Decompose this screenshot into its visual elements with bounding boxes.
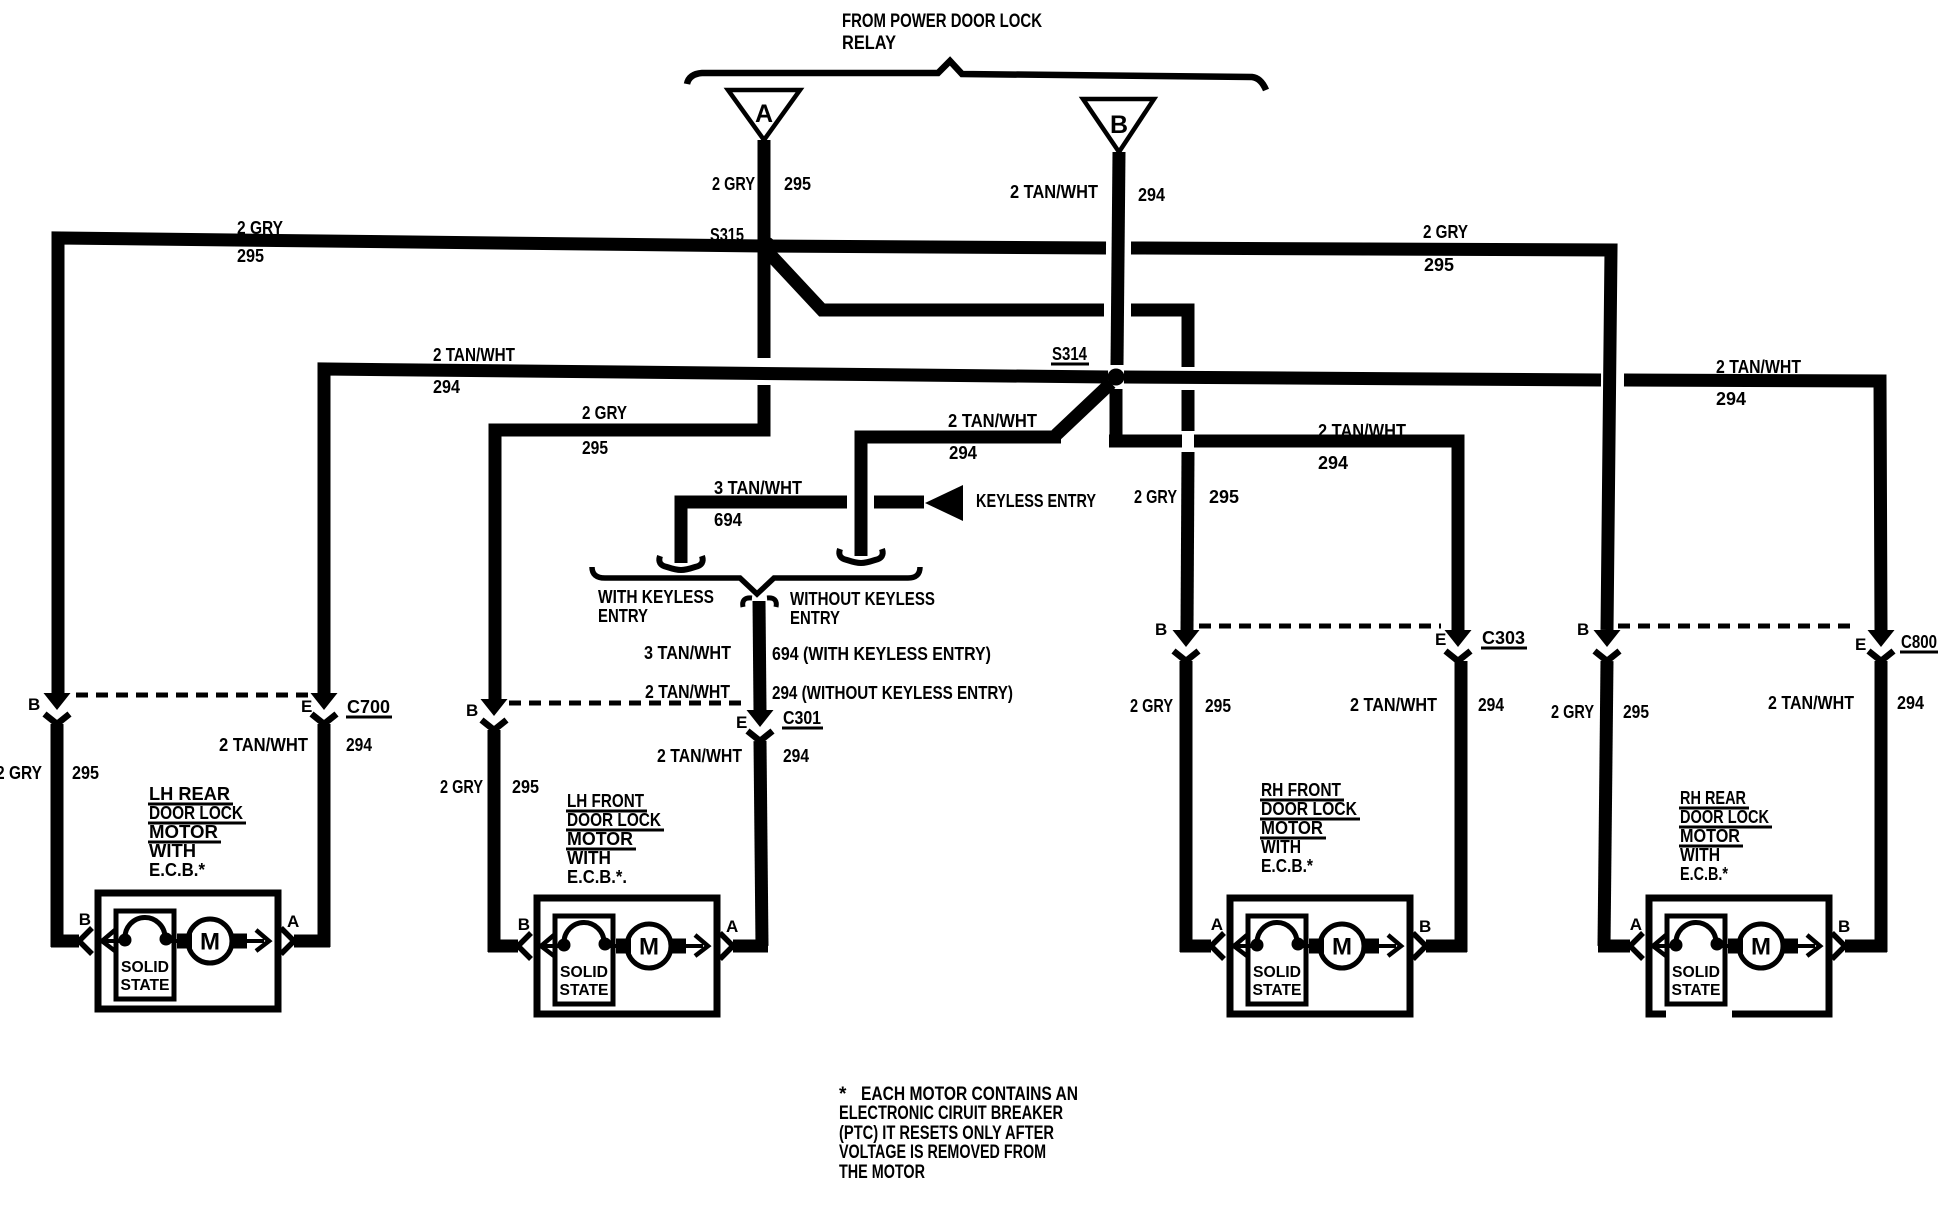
- svg-text:(PTC) IT RESETS ONLY AFTER: (PTC) IT RESETS ONLY AFTER: [839, 1123, 1054, 1144]
- svg-text:3 TAN/WHT: 3 TAN/WHT: [644, 643, 731, 663]
- svg-text:WITHOUT KEYLESS: WITHOUT KEYLESS: [790, 589, 935, 609]
- svg-text:E.C.B.*: E.C.B.*: [1680, 864, 1728, 884]
- svg-text:RH FRONT: RH FRONT: [1261, 780, 1341, 800]
- svg-text:E.C.B.*: E.C.B.*: [1261, 856, 1313, 876]
- svg-text:WITH KEYLESS: WITH KEYLESS: [598, 587, 714, 607]
- svg-text:294: 294: [1318, 453, 1348, 473]
- svg-text:A: A: [1630, 915, 1642, 934]
- svg-text:B: B: [1155, 620, 1167, 639]
- svg-text:E: E: [736, 713, 747, 732]
- svg-text:295: 295: [512, 777, 539, 797]
- svg-text:THE MOTOR: THE MOTOR: [839, 1162, 925, 1183]
- svg-text:694 (WITH KEYLESS ENTRY): 694 (WITH KEYLESS ENTRY): [772, 644, 991, 664]
- svg-text:*: *: [839, 1084, 847, 1105]
- svg-text:S314: S314: [1052, 344, 1087, 364]
- svg-text:MOTOR: MOTOR: [1680, 826, 1740, 846]
- svg-text:2 GRY: 2 GRY: [712, 174, 755, 194]
- svg-text:294: 294: [433, 377, 460, 397]
- svg-text:295: 295: [1209, 487, 1239, 507]
- svg-text:294: 294: [346, 735, 372, 755]
- svg-text:DOOR LOCK: DOOR LOCK: [149, 803, 243, 823]
- svg-text:2 GRY: 2 GRY: [440, 777, 483, 797]
- svg-text:295: 295: [1205, 696, 1231, 716]
- svg-text:2 TAN/WHT: 2 TAN/WHT: [645, 682, 730, 702]
- svg-text:295: 295: [1623, 702, 1649, 722]
- svg-text:C301: C301: [783, 708, 821, 728]
- svg-text:2 TAN/WHT: 2 TAN/WHT: [1318, 421, 1406, 441]
- svg-text:A: A: [287, 912, 299, 931]
- svg-text:294: 294: [1897, 693, 1924, 713]
- svg-text:2 TAN/WHT: 2 TAN/WHT: [1350, 695, 1437, 715]
- svg-text:C303: C303: [1482, 628, 1525, 648]
- svg-text:ENTRY: ENTRY: [790, 608, 840, 628]
- svg-text:2 TAN/WHT: 2 TAN/WHT: [657, 746, 742, 766]
- svg-text:FROM POWER DOOR LOCK: FROM POWER DOOR LOCK: [842, 11, 1042, 32]
- svg-text:B: B: [1110, 111, 1128, 139]
- svg-text:294: 294: [1478, 695, 1504, 715]
- svg-text:294 (WITHOUT KEYLESS ENTRY): 294 (WITHOUT KEYLESS ENTRY): [772, 683, 1013, 703]
- svg-text:ELECTRONIC CIRUIT BREAKER: ELECTRONIC CIRUIT BREAKER: [839, 1103, 1063, 1124]
- svg-text:C800: C800: [1901, 632, 1937, 652]
- svg-text:KEYLESS ENTRY: KEYLESS ENTRY: [976, 491, 1096, 511]
- svg-text:E.C.B.*: E.C.B.*: [149, 860, 205, 880]
- svg-text:2 TAN/WHT: 2 TAN/WHT: [433, 345, 515, 365]
- svg-text:RH REAR: RH REAR: [1680, 788, 1746, 808]
- svg-text:2 GRY: 2 GRY: [0, 763, 42, 783]
- svg-text:WITH: WITH: [567, 848, 611, 868]
- svg-text:DOOR LOCK: DOOR LOCK: [567, 810, 661, 830]
- svg-text:2 GRY: 2 GRY: [1551, 702, 1594, 722]
- svg-text:E: E: [1855, 635, 1866, 654]
- svg-text:295: 295: [72, 763, 99, 783]
- svg-text:DOOR LOCK: DOOR LOCK: [1261, 799, 1357, 819]
- svg-text:B: B: [1419, 917, 1431, 936]
- svg-text:S315: S315: [710, 225, 744, 245]
- svg-text:LH FRONT: LH FRONT: [567, 791, 644, 811]
- svg-text:2 TAN/WHT: 2 TAN/WHT: [1716, 357, 1801, 377]
- svg-text:B: B: [466, 701, 478, 720]
- svg-text:E: E: [301, 697, 312, 716]
- svg-text:294: 294: [1716, 389, 1746, 409]
- svg-text:VOLTAGE IS REMOVED FROM: VOLTAGE IS REMOVED FROM: [839, 1142, 1046, 1163]
- svg-text:B: B: [1577, 620, 1589, 639]
- svg-text:C700: C700: [347, 697, 390, 717]
- svg-text:MOTOR: MOTOR: [1261, 818, 1323, 838]
- svg-text:2 TAN/WHT: 2 TAN/WHT: [1768, 693, 1854, 713]
- svg-text:295: 295: [237, 246, 264, 266]
- svg-text:WITH: WITH: [1680, 845, 1720, 865]
- svg-text:294: 294: [949, 443, 977, 463]
- svg-text:ENTRY: ENTRY: [598, 606, 648, 626]
- svg-text:295: 295: [582, 438, 608, 458]
- svg-text:A: A: [755, 100, 773, 128]
- svg-text:2 TAN/WHT: 2 TAN/WHT: [948, 411, 1037, 431]
- svg-text:B: B: [28, 695, 40, 714]
- svg-text:WITH: WITH: [149, 841, 196, 861]
- svg-text:EACH MOTOR CONTAINS AN: EACH MOTOR CONTAINS AN: [861, 1084, 1078, 1105]
- svg-text:3 TAN/WHT: 3 TAN/WHT: [714, 478, 802, 498]
- svg-text:E: E: [1435, 630, 1446, 649]
- svg-text:LH REAR: LH REAR: [149, 784, 230, 804]
- svg-text:B: B: [79, 910, 91, 929]
- svg-text:2 GRY: 2 GRY: [237, 218, 283, 238]
- svg-text:MOTOR: MOTOR: [567, 829, 633, 849]
- svg-text:2 GRY: 2 GRY: [582, 403, 627, 423]
- svg-text:RELAY: RELAY: [842, 33, 896, 54]
- svg-text:694: 694: [714, 510, 742, 530]
- svg-text:2 TAN/WHT: 2 TAN/WHT: [219, 735, 308, 755]
- svg-text:295: 295: [784, 174, 811, 194]
- svg-text:E.C.B.*.: E.C.B.*.: [567, 867, 627, 887]
- svg-text:294: 294: [783, 746, 809, 766]
- svg-text:2 GRY: 2 GRY: [1423, 222, 1468, 242]
- svg-text:295: 295: [1424, 255, 1454, 275]
- svg-text:2 GRY: 2 GRY: [1134, 487, 1177, 507]
- svg-text:A: A: [1211, 915, 1223, 934]
- svg-text:2 GRY: 2 GRY: [1130, 696, 1173, 716]
- svg-text:A: A: [726, 917, 738, 936]
- svg-text:WITH: WITH: [1261, 837, 1301, 857]
- svg-text:294: 294: [1138, 185, 1165, 205]
- svg-text:B: B: [518, 915, 530, 934]
- svg-text:MOTOR: MOTOR: [149, 822, 218, 842]
- svg-text:DOOR LOCK: DOOR LOCK: [1680, 807, 1769, 827]
- svg-text:B: B: [1838, 917, 1850, 936]
- svg-text:2 TAN/WHT: 2 TAN/WHT: [1010, 182, 1098, 202]
